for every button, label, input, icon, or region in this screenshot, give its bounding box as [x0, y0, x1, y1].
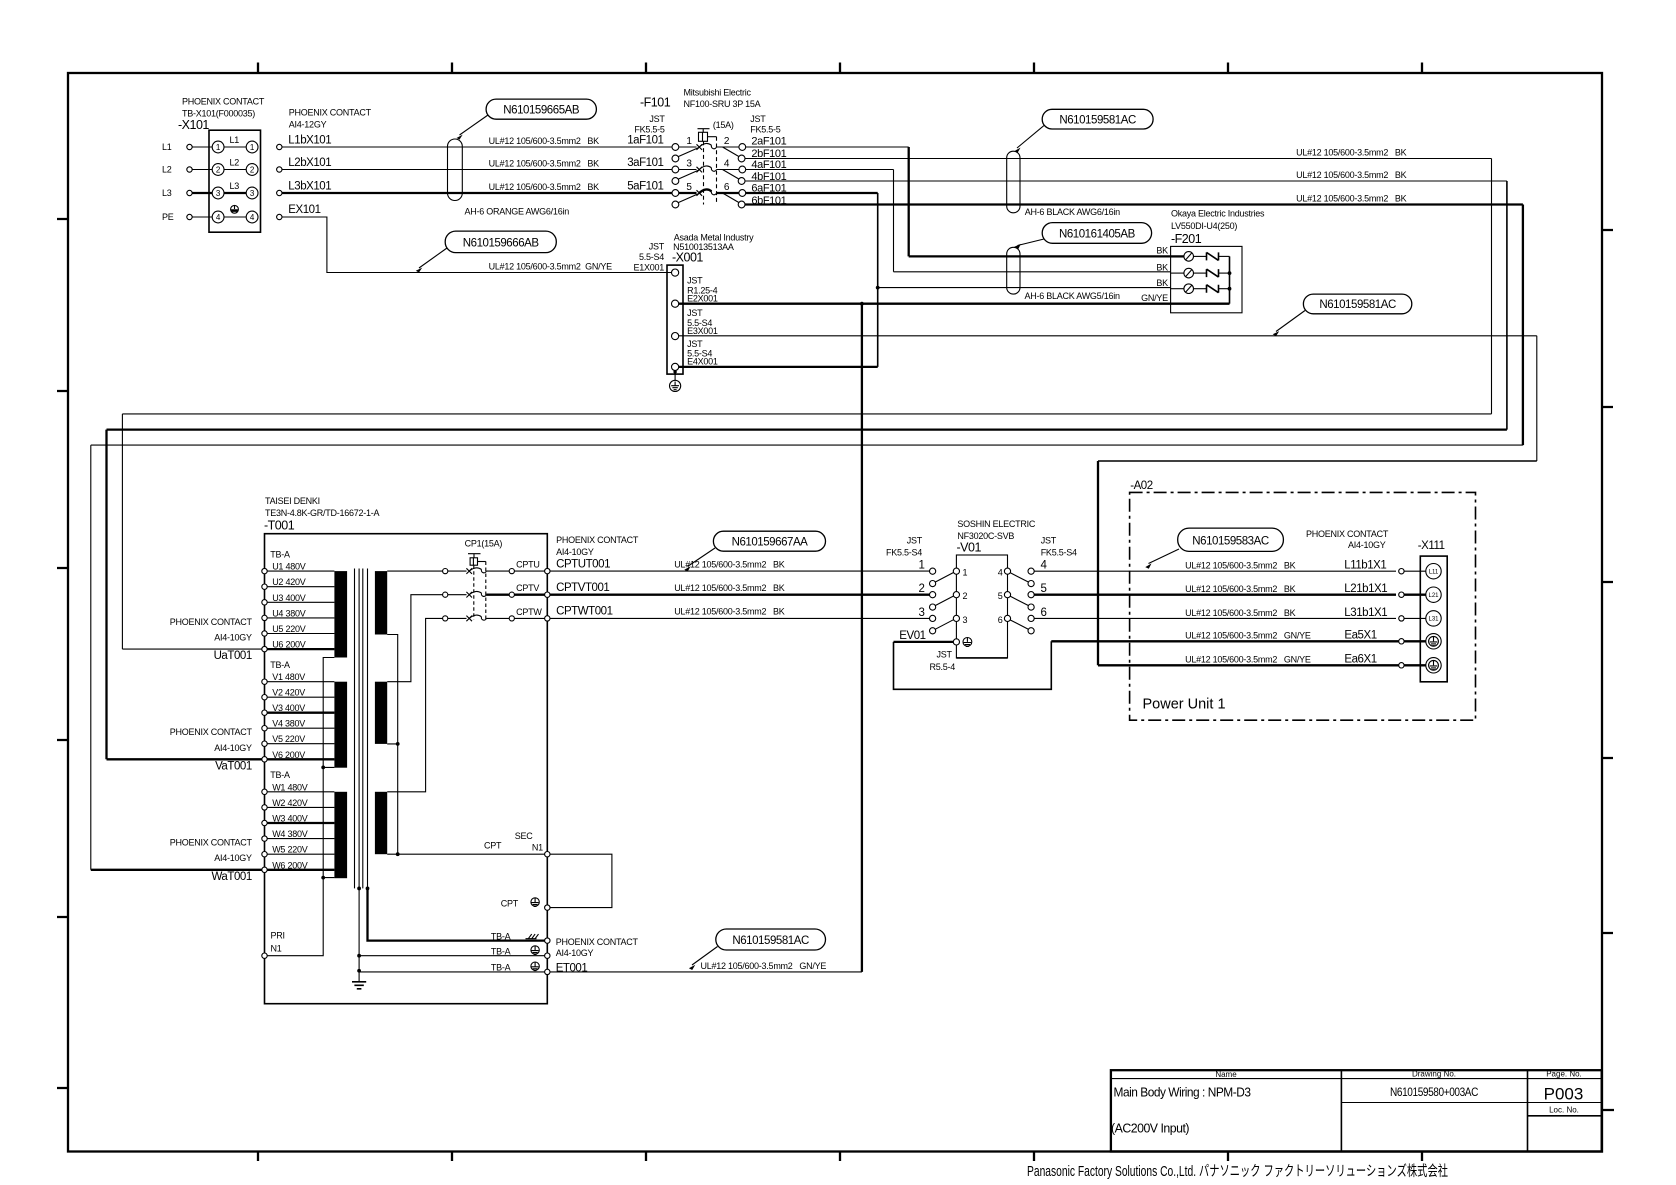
T001 primary tap terminal labels UaT001: [170, 617, 253, 662]
svg-text:AH-6 BLACK AWG6/16in: AH-6 BLACK AWG6/16in: [1025, 207, 1120, 217]
node EX101: [277, 204, 321, 220]
svg-text:L11b1X1: L11b1X1: [1344, 560, 1386, 572]
breaker F101 pole 1: [672, 136, 746, 162]
wire F201 GNYE to E2X001 route: [860, 302, 1230, 972]
label N610159583AC: [1145, 528, 1283, 569]
node 2bF101: [751, 148, 786, 160]
svg-text:Name: Name: [1215, 1070, 1237, 1079]
node 4aF101: [751, 159, 786, 171]
svg-text:3: 3: [250, 189, 255, 198]
svg-text:N610161405AB: N610161405AB: [1059, 228, 1136, 240]
wire 2aF101 to F201: [746, 147, 909, 256]
svg-text:-V01: -V01: [957, 541, 982, 555]
svg-text:V4 380V: V4 380V: [272, 719, 305, 729]
T001 V primary winding: [334, 682, 347, 768]
node L3bX101: [277, 181, 332, 196]
V01 input 1: [919, 560, 968, 587]
svg-text:TB-A: TB-A: [270, 550, 290, 560]
terminal strip X001: [633, 232, 754, 374]
V01 output 4: [998, 560, 1048, 587]
svg-text:UL#12 105/600-3.5mm2 BK: UL#12 105/600-3.5mm2 BK: [1185, 584, 1296, 594]
svg-text:L2bX101: L2bX101: [288, 157, 331, 169]
svg-text:4: 4: [724, 158, 730, 169]
V01 output 5: [998, 583, 1047, 610]
wire SEC N1 row: [387, 831, 612, 911]
T001 primary tap terminal labels WaT001: [170, 838, 253, 883]
svg-text:E3X001: E3X001: [687, 326, 718, 336]
cable marker ellipse for F201 wires: [1007, 247, 1120, 301]
svg-text:2: 2: [216, 165, 221, 174]
svg-text:PE: PE: [162, 212, 174, 222]
svg-text:SOSHIN ELECTRIC: SOSHIN ELECTRIC: [957, 519, 1036, 529]
svg-text:3: 3: [686, 158, 692, 169]
svg-text:W2 420V: W2 420V: [272, 798, 308, 808]
svg-text:N610159581AC: N610159581AC: [1059, 114, 1136, 126]
svg-text:(AC200V Input): (AC200V Input): [1111, 1122, 1189, 1136]
svg-text:V1 480V: V1 480V: [272, 672, 305, 682]
T001 U primary winding: [334, 571, 347, 657]
line filter V01: [886, 519, 1077, 658]
ground symbol X001: [670, 370, 681, 391]
svg-text:Panasonic Factory Solutions Co: Panasonic Factory Solutions Co.,Ltd. パナソ…: [1027, 1163, 1448, 1180]
wire CPTU secondary to CP1: [387, 570, 442, 572]
svg-text:UL#12 105/600-3.5mm2 BK: UL#12 105/600-3.5mm2 BK: [674, 583, 785, 593]
svg-text:L2: L2: [162, 165, 172, 175]
wire CPTV secondary to CP1: [387, 595, 442, 682]
svg-text:AI4-10GY: AI4-10GY: [214, 633, 252, 643]
X101 pin 1 pair: [212, 135, 258, 153]
primary feed run W: [91, 445, 1523, 870]
wire V01 out6 to X111: [1034, 617, 1396, 619]
wire V01 out4 to X111: [1034, 570, 1396, 572]
node PRI N1: [262, 931, 285, 959]
svg-text:Page. No.: Page. No.: [1546, 1070, 1582, 1079]
svg-text:CPT: CPT: [484, 841, 502, 851]
breaker F101 title labels: [634, 88, 780, 135]
wire 6aF101 to E4X001 and F201: [746, 193, 880, 367]
svg-text:JST: JST: [687, 276, 703, 286]
svg-text:4: 4: [216, 213, 221, 222]
wire L2bX101 to F101: [282, 158, 672, 169]
node L31b1X1: [1185, 607, 1441, 626]
X101 labels: [178, 97, 265, 132]
node 5aF101: [627, 181, 663, 193]
svg-text:TB-A: TB-A: [491, 931, 511, 941]
ground symbol in X101: [231, 205, 239, 213]
svg-text:AI4-10GY: AI4-10GY: [214, 743, 252, 753]
svg-text:W1 480V: W1 480V: [272, 782, 308, 792]
svg-text:Okaya Electric Industries: Okaya Electric Industries: [1171, 209, 1265, 219]
svg-text:JST: JST: [937, 650, 953, 660]
svg-text:3: 3: [963, 615, 968, 625]
svg-text:N610159580+003AC: N610159580+003AC: [1390, 1087, 1478, 1099]
svg-text:LV550DI-U4(250): LV550DI-U4(250): [1171, 221, 1237, 231]
svg-text:FK5.5-5: FK5.5-5: [750, 125, 781, 135]
svg-text:Power Unit 1: Power Unit 1: [1143, 697, 1226, 713]
wire 4aF101 to F201: [746, 170, 894, 272]
breaker F101 pole 2: [672, 158, 746, 184]
svg-text:CPTV: CPTV: [516, 583, 539, 593]
earth symbol below core: [352, 972, 366, 989]
wire 4b vertical right: [1506, 181, 1508, 430]
wire E3X001 GNYE long route to Ea6X1: [679, 336, 1537, 666]
svg-text:UL#12 105/600-3.5mm2 GN/YE: UL#12 105/600-3.5mm2 GN/YE: [701, 961, 827, 971]
phoenix contact labels CPT outputs: [556, 535, 639, 557]
svg-text:L21b1X1: L21b1X1: [1344, 583, 1387, 595]
svg-text:-F101: -F101: [640, 96, 671, 110]
line filter F201: [1171, 209, 1265, 313]
label N610159665AB: [457, 99, 597, 140]
svg-text:2: 2: [963, 591, 968, 601]
svg-text:UL#12 105/600-3.5mm2 BK: UL#12 105/600-3.5mm2 BK: [489, 136, 600, 146]
svg-text:EV01: EV01: [899, 630, 925, 642]
svg-text:UL#12 105/600-3.5mm2 GN/YE: UL#12 105/600-3.5mm2 GN/YE: [1185, 655, 1311, 665]
node 6bF101: [751, 195, 786, 207]
wire 2bF101 right: [745, 147, 1492, 158]
svg-text:UL#12 105/600-3.5mm2 BK: UL#12 105/600-3.5mm2 BK: [674, 607, 785, 617]
svg-text:5: 5: [1041, 583, 1047, 595]
svg-text:JST: JST: [649, 242, 665, 252]
F201 varistor 2: [1156, 262, 1229, 278]
wire L1bX101 to F101: [282, 136, 672, 147]
enclosure A02 Power Unit 1: [1130, 480, 1476, 720]
svg-text:5: 5: [998, 591, 1003, 601]
svg-text:W4 380V: W4 380V: [272, 829, 308, 839]
F201 varistor 3: [1156, 278, 1229, 294]
svg-text:TB-A: TB-A: [270, 660, 290, 670]
svg-text:-X001: -X001: [672, 251, 703, 265]
svg-text:(15A): (15A): [713, 120, 734, 130]
svg-text:PHOENIX CONTACT: PHOENIX CONTACT: [170, 727, 253, 737]
svg-text:N1: N1: [532, 842, 543, 852]
svg-text:UL#12 105/600-3.5mm2 GN/YE: UL#12 105/600-3.5mm2 GN/YE: [1185, 631, 1311, 641]
svg-text:WaT001: WaT001: [211, 871, 251, 883]
svg-text:Drawing No.: Drawing No.: [1412, 1070, 1456, 1079]
svg-text:BK: BK: [1156, 278, 1168, 288]
svg-text:PHOENIX CONTACT: PHOENIX CONTACT: [170, 617, 253, 627]
node L3: [162, 188, 192, 198]
node 1aF101: [627, 135, 663, 147]
svg-text:N610159666AB: N610159666AB: [463, 237, 540, 249]
svg-text:L1: L1: [162, 142, 172, 152]
svg-text:N1: N1: [271, 944, 282, 954]
node L11b1X1: [1185, 560, 1441, 579]
T001 TB-A row C node ET001: [357, 962, 587, 975]
T001 TB-A row A chassis: [368, 888, 639, 946]
svg-text:-T001: -T001: [264, 518, 295, 532]
CP1 pole V: [443, 583, 550, 597]
svg-text:6: 6: [1041, 607, 1047, 619]
svg-text:Loc. No.: Loc. No.: [1549, 1106, 1579, 1115]
svg-text:TB-A: TB-A: [270, 770, 290, 780]
T001 primary neutral bus: [267, 658, 334, 956]
svg-text:UL#12 105/600-3.5mm2 BK: UL#12 105/600-3.5mm2 BK: [489, 182, 600, 192]
primary feed run V: [107, 430, 1507, 760]
wire F201 BK2 from 893: [894, 271, 1171, 273]
wire E4X001: [679, 366, 878, 368]
svg-text:-F201: -F201: [1171, 232, 1202, 246]
svg-text:CPTVT001: CPTVT001: [556, 582, 609, 594]
wire L2 to X101: [192, 169, 212, 171]
svg-text:U1 480V: U1 480V: [272, 562, 306, 572]
T001 secondary winding U: [375, 571, 387, 634]
breaker CP1: [465, 538, 503, 619]
svg-text:NF100-SRU 3P 15A: NF100-SRU 3P 15A: [684, 99, 761, 109]
T001 W tap group: [262, 770, 335, 872]
svg-text:3: 3: [919, 607, 925, 619]
svg-text:PHOENIX CONTACT: PHOENIX CONTACT: [556, 937, 639, 947]
svg-text:2: 2: [919, 583, 925, 595]
svg-text:U3 400V: U3 400V: [272, 593, 306, 603]
svg-text:UL#12 105/600-3.5mm2 BK: UL#12 105/600-3.5mm2 BK: [1296, 193, 1407, 203]
node L1: [162, 142, 192, 152]
svg-text:5aF101: 5aF101: [627, 181, 663, 193]
svg-text:1: 1: [919, 560, 925, 572]
svg-text:CPT: CPT: [501, 899, 519, 909]
T001 core: [355, 569, 370, 891]
T001 V tap group: [262, 660, 335, 762]
svg-text:AI4-12GY: AI4-12GY: [289, 120, 327, 130]
X101 pin 4 pair with PE symbol: [212, 211, 258, 223]
V01 input 2: [919, 583, 968, 610]
svg-text:1: 1: [686, 136, 692, 147]
T001 TB-A row B: [357, 888, 593, 972]
svg-text:FK5.5-5: FK5.5-5: [634, 125, 665, 135]
wire 6bF101 right: [745, 193, 1523, 204]
T001 W primary winding: [334, 792, 347, 878]
svg-text:JST: JST: [750, 114, 766, 124]
svg-text:3aF101: 3aF101: [627, 157, 663, 169]
breaker F101 pole 3: [672, 182, 746, 208]
svg-text:L2: L2: [230, 158, 240, 168]
svg-text:JST: JST: [1041, 536, 1057, 546]
wire L3bX101 to F101: [282, 182, 672, 193]
breaker F101 operating mechanism: [698, 129, 717, 205]
node E1X001: [672, 269, 679, 276]
T001 secondary winding W: [375, 792, 387, 854]
svg-text:JST: JST: [687, 339, 703, 349]
T001 U tap group: [262, 550, 335, 652]
svg-text:TAISEI DENKI: TAISEI DENKI: [265, 496, 320, 506]
wire Ea6X1 to X111: [1098, 664, 1399, 666]
svg-text:U2 420V: U2 420V: [272, 577, 306, 587]
CP1 pole W: [443, 607, 550, 621]
svg-text:UaT001: UaT001: [214, 650, 252, 662]
label N610159666AB: [416, 231, 557, 272]
svg-text:3: 3: [216, 189, 221, 198]
wire E2X001 to bus: [679, 303, 862, 305]
svg-text:CPTU: CPTU: [516, 560, 540, 570]
svg-text:BK: BK: [1156, 246, 1168, 256]
cable marker ellipse N610159665AB: [448, 139, 463, 201]
svg-text:L31b1X1: L31b1X1: [1344, 607, 1387, 619]
node L2bX101: [277, 157, 332, 172]
node 6aF101: [751, 182, 786, 194]
svg-text:Ea6X1: Ea6X1: [1344, 654, 1376, 666]
svg-text:AH-6 BLACK AWG5/16in: AH-6 BLACK AWG5/16in: [1025, 291, 1120, 301]
wire L1 to X101: [192, 146, 212, 148]
svg-text:V2 420V: V2 420V: [272, 688, 305, 698]
svg-text:6: 6: [998, 615, 1003, 625]
svg-text:PRI: PRI: [271, 931, 285, 941]
wire 6b vertical right: [1522, 205, 1524, 446]
terminal block X101: [209, 130, 261, 232]
primary feed run U: [122, 414, 1491, 649]
svg-text:UL#12 105/600-3.5mm2 BK: UL#12 105/600-3.5mm2 BK: [1185, 561, 1296, 571]
label N610159581AC middle: [1273, 294, 1412, 336]
label N610159667AA: [684, 531, 825, 571]
svg-text:2aF101: 2aF101: [751, 135, 786, 147]
node E3X001: [672, 308, 718, 340]
svg-text:UL#12 105/600-3.5mm2 BK: UL#12 105/600-3.5mm2 BK: [1296, 147, 1407, 157]
svg-text:TB-A: TB-A: [491, 947, 511, 957]
svg-text:L3bX101: L3bX101: [288, 181, 331, 193]
svg-text:1: 1: [216, 143, 221, 152]
svg-text:5: 5: [686, 182, 692, 193]
svg-text:EX101: EX101: [288, 204, 320, 216]
svg-text:FK5.5-S4: FK5.5-S4: [1041, 548, 1077, 558]
svg-text:AI4-10GY: AI4-10GY: [214, 853, 252, 863]
wire L3 to X101: [192, 192, 212, 194]
node PE: [162, 212, 192, 222]
svg-text:-A02: -A02: [1130, 480, 1153, 492]
F201 ground bus: [1141, 256, 1231, 303]
svg-text:CPTW: CPTW: [516, 607, 542, 617]
svg-text:TB-A: TB-A: [491, 963, 511, 973]
CP1 pole U: [443, 560, 550, 574]
svg-text:L1: L1: [230, 135, 240, 145]
V01 output 6: [998, 607, 1047, 634]
svg-text:Main Body Wiring : NPM-D3: Main Body Wiring : NPM-D3: [1114, 1086, 1252, 1100]
svg-text:R5.5-4: R5.5-4: [930, 662, 956, 672]
node L1bX101: [277, 135, 332, 150]
svg-text:UL#12 105/600-3.5mm2 BK: UL#12 105/600-3.5mm2 BK: [1185, 608, 1296, 618]
node 2aF101: [751, 135, 786, 147]
svg-text:E4X001: E4X001: [687, 357, 718, 367]
cable marker ellipse for 2b4b6b: [1007, 151, 1120, 217]
svg-text:4: 4: [1041, 560, 1048, 572]
svg-text:UL#12 105/600-3.5mm2 BK: UL#12 105/600-3.5mm2 BK: [1296, 170, 1407, 180]
svg-text:Mitsubishi Electric: Mitsubishi Electric: [684, 88, 752, 98]
node Ea5X1: [1185, 630, 1441, 649]
CPT shield ground terminal: [501, 898, 540, 909]
label N610161405AB: [1014, 223, 1151, 250]
wire 2b vertical right: [1491, 159, 1493, 414]
svg-text:JST: JST: [907, 536, 923, 546]
svg-text:VaT001: VaT001: [215, 760, 252, 772]
svg-text:AH-6 ORANGE AWG6/16in: AH-6 ORANGE AWG6/16in: [465, 207, 570, 217]
svg-text:Ea5X1: Ea5X1: [1344, 630, 1376, 642]
svg-text:AI4-10GY: AI4-10GY: [556, 547, 594, 557]
T001 secondary neutral bus: [387, 635, 399, 857]
svg-text:JST: JST: [649, 114, 665, 124]
svg-text:L3: L3: [162, 188, 172, 198]
T001 secondary winding V: [375, 682, 387, 744]
svg-text:4: 4: [250, 213, 255, 222]
V01 input 3: [919, 607, 968, 634]
svg-text:V5 220V: V5 220V: [272, 734, 305, 744]
svg-text:AI4-10GY: AI4-10GY: [1348, 540, 1386, 550]
node 3aF101: [627, 157, 663, 169]
svg-text:AI4-10GY: AI4-10GY: [556, 948, 594, 958]
svg-text:2: 2: [724, 136, 730, 147]
svg-text:L21: L21: [1428, 593, 1439, 599]
wire V01 out5 to X111: [1034, 594, 1396, 596]
svg-text:JST: JST: [687, 308, 703, 318]
svg-text:ET001: ET001: [556, 962, 588, 974]
wire PE to X101: [192, 216, 212, 218]
svg-text:CPTWT001: CPTWT001: [556, 606, 613, 618]
svg-text:-X101: -X101: [178, 118, 209, 132]
wire CPTWT001 to V01: [550, 606, 930, 619]
node E4X001: [672, 339, 718, 371]
svg-text:L3: L3: [230, 181, 240, 191]
svg-text:PHOENIX CONTACT: PHOENIX CONTACT: [1306, 529, 1389, 539]
svg-text:L1bX101: L1bX101: [288, 135, 331, 147]
transformer T001: [264, 496, 547, 1004]
svg-text:UL#12 105/600-3.5mm2 GN/YE: UL#12 105/600-3.5mm2 GN/YE: [489, 261, 613, 271]
wire F201 BK3 from 877: [878, 287, 1171, 289]
wire CPTW secondary to CP1: [387, 618, 442, 791]
svg-text:N610159667AA: N610159667AA: [732, 537, 809, 549]
svg-text:5.5-S4: 5.5-S4: [639, 252, 664, 262]
svg-text:BK: BK: [1156, 262, 1168, 272]
svg-text:-X111: -X111: [1418, 540, 1445, 552]
svg-text:L11: L11: [1429, 569, 1439, 575]
node E2X001: [672, 276, 718, 308]
svg-text:FK5.5-S4: FK5.5-S4: [886, 548, 922, 558]
svg-text:1: 1: [250, 143, 255, 152]
wire 4bF101 right: [745, 170, 1507, 181]
svg-text:N610159581AC: N610159581AC: [1319, 299, 1396, 311]
svg-text:PHOENIX CONTACT: PHOENIX CONTACT: [289, 108, 372, 118]
wire CPTVT001 to V01: [550, 582, 930, 595]
title block: [1111, 1070, 1602, 1152]
svg-text:P003: P003: [1544, 1085, 1584, 1104]
terminal block X111: [1306, 529, 1447, 682]
V01 ground pin EV01: [899, 630, 972, 672]
svg-text:4: 4: [998, 568, 1003, 578]
svg-text:W5 220V: W5 220V: [272, 845, 308, 855]
node L2: [162, 165, 192, 175]
svg-text:UL#12 105/600-3.5mm2 BK: UL#12 105/600-3.5mm2 BK: [489, 158, 600, 168]
svg-text:TE3N-4.8K-GR/TD-16672-1-A: TE3N-4.8K-GR/TD-16672-1-A: [265, 508, 380, 518]
svg-text:1: 1: [963, 568, 968, 578]
node Ea6X1: [1185, 654, 1441, 673]
wire EX101 to E1X001: [282, 207, 672, 273]
wire ET001 to chassis: [550, 961, 862, 972]
wire EV01 to Ea5X1: [894, 641, 1399, 689]
svg-text:E1X001: E1X001: [633, 262, 664, 272]
svg-text:E2X001: E2X001: [687, 294, 718, 304]
svg-text:PHOENIX CONTACT: PHOENIX CONTACT: [556, 535, 639, 545]
svg-text:Asada Metal Industry: Asada Metal Industry: [674, 232, 754, 242]
node 4bF101: [751, 171, 786, 183]
svg-text:N610159583AC: N610159583AC: [1192, 536, 1269, 548]
svg-text:L31: L31: [1428, 617, 1439, 623]
svg-text:U4 380V: U4 380V: [272, 608, 306, 618]
svg-text:N610159581AC: N610159581AC: [732, 935, 809, 947]
svg-text:NF3020C-SVB: NF3020C-SVB: [957, 531, 1014, 541]
svg-text:PHOENIX CONTACT: PHOENIX CONTACT: [170, 838, 253, 848]
wire CPTUT001 to V01: [550, 558, 930, 571]
company footer: [1027, 1163, 1448, 1180]
svg-text:2: 2: [250, 165, 255, 174]
node L21b1X1: [1185, 583, 1441, 602]
phoenix contact AI4-12GY labels: [289, 108, 372, 130]
svg-text:CPTUT001: CPTUT001: [556, 558, 610, 570]
svg-text:U5 220V: U5 220V: [272, 624, 306, 634]
